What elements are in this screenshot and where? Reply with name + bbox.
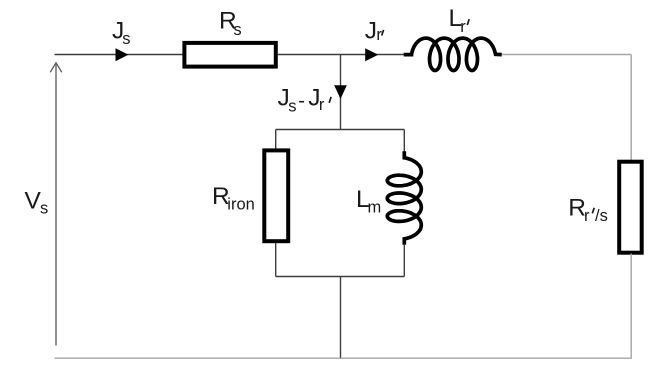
wire: branch to bottom rail [340, 277, 342, 358]
label R_r'/s prime [592, 208, 594, 214]
wire: R_iron bottom lead [275, 243, 277, 277]
svg-text:Rr/s: Rr/s [568, 194, 608, 225]
wire: right vertical upper [630, 55, 632, 162]
svg-text:Riron: Riron [212, 183, 255, 214]
wire: bottom rail [55, 357, 632, 359]
label J_r' prime [382, 30, 384, 36]
resistor R_iron [264, 150, 288, 241]
wire: branch bottom [276, 276, 405, 278]
wire: top-left segment [55, 54, 184, 56]
wire: right vertical lower [630, 254, 632, 358]
current arrow J_s minus J_r' [334, 85, 347, 99]
wire: L_m bottom lead [403, 244, 405, 277]
label L_r' prime [467, 19, 469, 25]
resistor R_r'/s [619, 162, 642, 253]
inductor L_r' [404, 38, 502, 70]
svg-text:Js: Js [112, 17, 131, 48]
label J_s - J_r' prime [329, 97, 331, 103]
svg-text:Jr: Jr [365, 17, 383, 44]
inductor L_m [387, 151, 421, 245]
wire: node to parallel branch [340, 55, 342, 131]
svg-text:Rs: Rs [219, 8, 242, 39]
wire: R_iron top lead [275, 130, 277, 150]
wire: L_m top lead [403, 130, 405, 153]
current arrow J_r' [365, 48, 378, 61]
svg-text:Vs: Vs [25, 187, 49, 217]
svg-text:Js-Jr: Js-Jr [278, 85, 325, 116]
voltage arrow V_s [50, 63, 62, 346]
wire: branch top [276, 129, 405, 131]
wire: R_s to node to coil [278, 54, 405, 56]
svg-text:Lm: Lm [356, 186, 381, 216]
current arrow J_s [116, 48, 129, 61]
svg-text:Lr: Lr [449, 5, 467, 36]
wire: coil to top-right corner [502, 54, 632, 56]
resistor R_s [184, 43, 275, 67]
